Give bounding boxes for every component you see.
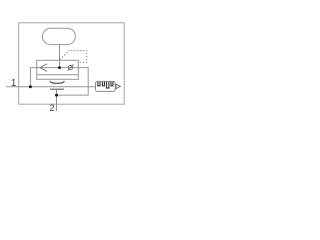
nozzle arrow bbox=[40, 64, 47, 72]
port 1 wire bbox=[6, 86, 95, 88]
nozzle tee bar bbox=[50, 88, 64, 90]
muffler box bbox=[96, 81, 116, 91]
venturi body rectangle bbox=[37, 60, 79, 79]
muffler baffle pattern bbox=[98, 82, 113, 88]
nozzle orifice circle bbox=[68, 65, 72, 69]
wire: venturi inlet drop, throughline, outlet drop to port-2 run bbox=[30, 68, 88, 96]
orifice slash bbox=[68, 65, 74, 71]
junction dot at venturi inlet bbox=[58, 66, 61, 69]
reservoir (stadium) bbox=[42, 28, 75, 44]
svg-text:2: 2 bbox=[49, 103, 54, 113]
junction dot port 2 bbox=[55, 94, 58, 97]
wire stem from reservoir to venturi bbox=[59, 45, 61, 68]
junction dot port 1 bbox=[29, 85, 32, 88]
pilot dashed line bbox=[60, 51, 87, 63]
exhaust triangle bbox=[116, 84, 120, 89]
port 2 stem bbox=[56, 89, 58, 111]
venturi chamber divider bbox=[37, 74, 79, 76]
svg-text:1: 1 bbox=[11, 78, 16, 89]
component boundary box bbox=[19, 23, 125, 104]
suction cup arc bbox=[50, 81, 64, 83]
